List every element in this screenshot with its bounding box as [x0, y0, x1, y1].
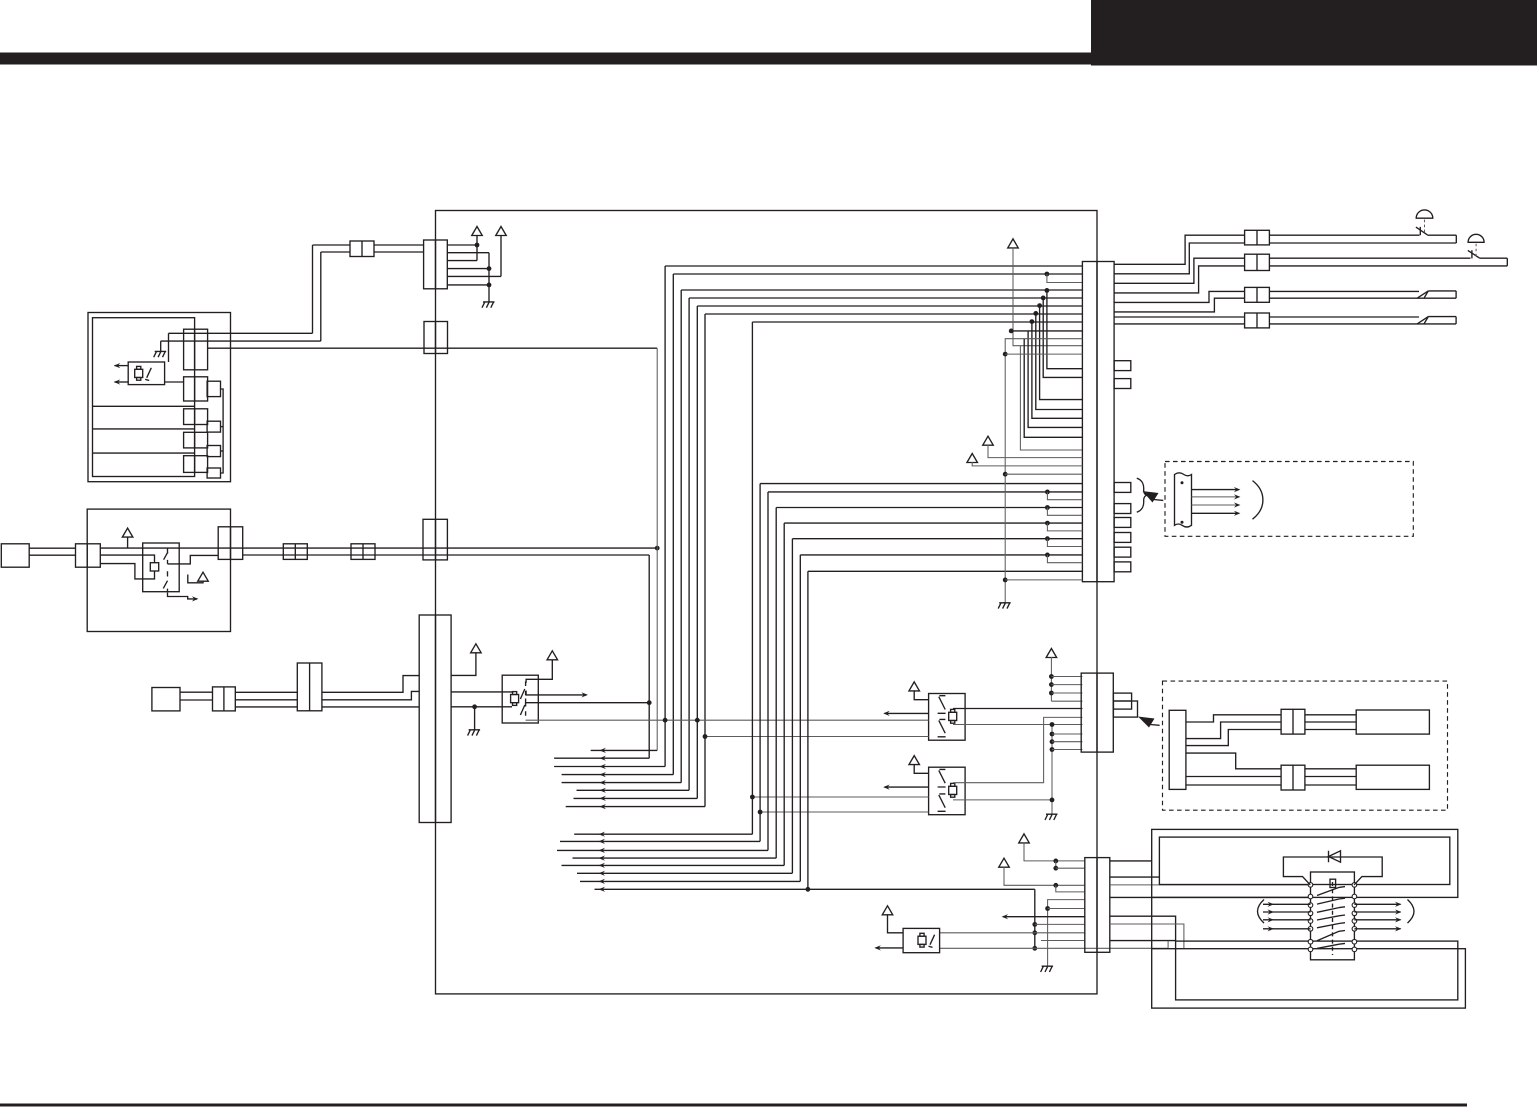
wire arrow out	[526, 691, 586, 695]
wire bundle lower	[784, 522, 1082, 524]
terminal tab	[1114, 562, 1131, 572]
wire bus out (arrow)	[562, 774, 674, 776]
wire	[1480, 257, 1508, 259]
switch fuse	[1330, 879, 1336, 887]
switch blade	[1317, 908, 1339, 913]
wire bundle1 vertical	[664, 266, 666, 767]
wire bus out (arrow)	[554, 757, 649, 759]
wire staircase	[1114, 266, 1245, 293]
wire bundle2 vertical	[807, 571, 809, 889]
wire arrow out	[115, 365, 129, 367]
wire arrow	[1192, 512, 1239, 514]
wire	[312, 245, 314, 333]
wire	[1114, 316, 1245, 318]
connector inline out3	[1245, 287, 1270, 302]
switch contact	[1416, 227, 1427, 235]
terminal tab	[207, 421, 220, 432]
wire bundle2 vertical	[783, 523, 785, 865]
wire staircase	[1114, 298, 1245, 312]
connector CN21 (edge)	[76, 544, 101, 567]
photocoupler PC42	[929, 767, 966, 815]
wire	[1051, 692, 1082, 694]
wire	[1305, 768, 1356, 770]
wire	[940, 947, 1169, 949]
wire pair link	[1030, 319, 1035, 324]
wire	[1305, 784, 1356, 786]
wire bundle lower	[792, 538, 1082, 540]
wire arrow	[1192, 489, 1239, 491]
wire gnd rail	[1051, 725, 1053, 815]
frame join	[1151, 897, 1153, 948]
wire	[1048, 900, 1085, 967]
wire bundle lower	[808, 570, 1083, 572]
photocoupler PC31	[502, 675, 538, 723]
power symbol	[909, 756, 920, 765]
power symbol	[999, 858, 1010, 867]
wire	[1052, 741, 1082, 743]
bracket	[1408, 900, 1415, 924]
wire	[1005, 579, 1082, 581]
connector CN1 (board edge, top)	[424, 240, 448, 289]
wire to power	[451, 652, 476, 675]
wire link	[1167, 941, 1169, 948]
connector CN13	[184, 409, 208, 425]
terminal tab	[1114, 533, 1131, 543]
connector inline	[351, 544, 375, 560]
switch pole pin	[1308, 939, 1313, 944]
wire bus out (arrow)	[562, 782, 682, 784]
bracket	[1253, 481, 1263, 520]
wire bus out (arrow)	[554, 766, 665, 768]
wire bundle lower	[800, 554, 1082, 556]
switch blade	[1317, 931, 1339, 940]
terminal tab	[207, 381, 220, 396]
wire arrow	[1192, 504, 1239, 506]
wire	[1005, 473, 1082, 475]
switch blade	[1317, 944, 1339, 948]
wire pair link	[1045, 553, 1050, 558]
ground	[1045, 814, 1058, 820]
wire arrow out	[168, 593, 198, 599]
wire staircase	[1114, 235, 1245, 264]
wire	[953, 799, 1052, 801]
wire	[1052, 749, 1082, 751]
wire gnd rail	[1005, 339, 1082, 603]
wire bundle top	[673, 273, 1082, 275]
ground	[1041, 966, 1054, 972]
connector CN11	[184, 329, 208, 370]
wire antenna feed 1	[1269, 234, 1419, 236]
wire	[1427, 234, 1456, 236]
jack square	[1, 544, 29, 567]
wire bundle top	[681, 289, 1082, 291]
terminal tab	[207, 446, 220, 457]
wire step	[1186, 753, 1281, 769]
wire bus out (arrow, through)	[595, 888, 1035, 890]
wire	[100, 547, 242, 549]
wire	[1269, 265, 1507, 267]
wire staircase	[1114, 243, 1245, 274]
wire pin3	[447, 260, 477, 262]
wire link	[1056, 885, 1085, 892]
connector CN22 (edge)	[218, 527, 243, 560]
wire arrow out	[885, 712, 929, 714]
wire bus out (arrow)	[557, 849, 768, 851]
wire	[1269, 297, 1456, 299]
node junction	[647, 700, 652, 705]
wire power stem	[1013, 247, 1082, 345]
power symbol B+	[496, 227, 507, 236]
wire	[1051, 676, 1082, 678]
connector CN12	[184, 377, 208, 401]
wire splice pair 2	[1269, 316, 1419, 318]
power symbol	[1019, 834, 1030, 843]
wire bundle2 vertical	[775, 508, 777, 859]
wire	[1305, 776, 1356, 778]
wire pin1	[447, 244, 477, 246]
contact 1	[164, 548, 168, 564]
wire arrow out	[1354, 911, 1400, 913]
wire arrow in	[1263, 903, 1311, 905]
connector CN top inline	[350, 241, 374, 257]
wire bus A	[207, 347, 657, 349]
wire step	[322, 676, 419, 693]
wire bus out (arrow)	[577, 789, 690, 791]
wire arrow	[1192, 496, 1239, 498]
wire chain	[221, 389, 224, 473]
wire bundle1 vertical	[696, 306, 698, 798]
connector inline out4	[1245, 313, 1270, 328]
wire pin4	[447, 268, 489, 270]
wire pair link	[1020, 346, 1082, 450]
connector inline tall	[297, 663, 322, 711]
wire	[1011, 330, 1082, 332]
wire	[29, 547, 75, 549]
connector CN7 (board edge, bottom)	[1085, 858, 1110, 953]
connector CN2 (board edge)	[424, 322, 448, 354]
wire	[1005, 353, 1082, 355]
module box	[1356, 710, 1429, 734]
antenna dome 1	[1416, 210, 1433, 218]
wire bundle1 vertical	[648, 555, 650, 758]
wire	[451, 691, 513, 693]
connector block	[1169, 710, 1186, 789]
diode D1 loop	[1283, 857, 1382, 885]
terminal tab	[1114, 483, 1131, 493]
wire step	[1186, 715, 1281, 722]
wire	[1114, 323, 1245, 325]
terminal tab	[1114, 518, 1131, 528]
ground	[468, 730, 481, 736]
wire pair link	[1028, 331, 1082, 428]
antenna dome 2	[1468, 234, 1484, 242]
connector inline	[1281, 765, 1305, 790]
wire	[1186, 784, 1281, 786]
wire bus out (arrow)	[574, 797, 698, 799]
wire pin2	[447, 252, 489, 254]
terminal tab	[1114, 547, 1131, 557]
wire bus out (arrow)	[573, 857, 777, 859]
switch link (dashed)	[1332, 882, 1334, 955]
wire	[1305, 714, 1356, 716]
wire bundle top	[665, 265, 1082, 267]
wire	[235, 691, 297, 693]
power symbol	[909, 682, 920, 691]
wire	[1110, 940, 1176, 942]
wire staircase	[1114, 258, 1245, 283]
wire pair link	[1041, 296, 1046, 301]
wire pair link	[1037, 303, 1042, 308]
wire to CN12	[165, 381, 184, 383]
wire bundle2 vertical	[767, 492, 769, 851]
switch pole pin	[1308, 911, 1313, 916]
wire bundle2 vertical	[759, 484, 761, 842]
wire pair link	[1045, 272, 1050, 277]
wire bus B	[243, 547, 658, 549]
wire in	[752, 796, 928, 798]
wire step	[1186, 722, 1281, 739]
wire pair link	[1045, 490, 1050, 495]
unit frame outer bottom	[1152, 949, 1466, 1008]
wire	[1052, 733, 1082, 735]
terminal tab	[1113, 693, 1131, 709]
connector CN6 (board edge)	[1081, 673, 1113, 752]
connector CN15	[184, 456, 208, 473]
connector CN14	[184, 432, 208, 448]
connector inline	[213, 687, 236, 711]
node junction	[472, 704, 477, 709]
partition line	[93, 405, 195, 407]
wire arrow out	[1003, 916, 1085, 918]
jack square	[152, 688, 180, 711]
wire arrow out	[1354, 903, 1400, 905]
ground	[998, 603, 1011, 609]
wire pin6	[447, 284, 489, 286]
wire bundle2 vertical	[791, 539, 793, 874]
wire bundle top	[752, 321, 1082, 323]
connector inline out2	[1245, 254, 1270, 270]
switch pole pin	[1308, 927, 1313, 932]
unit box inner	[93, 318, 195, 477]
callout arrow	[1143, 491, 1159, 503]
wire arrow in	[1263, 928, 1311, 930]
unit frame inner top	[1159, 837, 1449, 884]
wire bundle1 vertical	[672, 274, 674, 775]
wire pair link	[1045, 505, 1050, 510]
power symbol	[547, 651, 558, 660]
wire	[1110, 916, 1176, 941]
detail frame (dashed)	[1163, 681, 1448, 810]
wire bundle2 vertical	[799, 555, 801, 882]
wire in	[760, 811, 929, 813]
contact 2	[163, 571, 167, 593]
wire bus out (arrow)	[560, 840, 760, 842]
unit box	[87, 509, 230, 631]
wire arrow out	[876, 947, 903, 949]
wire staircase	[1114, 291, 1245, 302]
power symbol	[122, 528, 133, 537]
terminal tab	[1113, 701, 1137, 717]
wire bundle2 vertical	[751, 322, 753, 834]
wire	[1305, 729, 1356, 731]
wire arrow in	[1263, 919, 1311, 921]
wire gnd stem	[474, 707, 476, 730]
wire step	[322, 691, 419, 699]
wire bus out (arrow)	[577, 872, 792, 874]
wire	[1110, 924, 1184, 949]
footer rule	[0, 1104, 1467, 1107]
power symbol B+	[1008, 239, 1019, 248]
wire	[374, 244, 424, 246]
diode D1	[1329, 851, 1341, 862]
wire antenna feed 2	[1269, 257, 1470, 259]
power symbol B+	[472, 227, 483, 236]
connector CN3 (board edge)	[423, 519, 447, 560]
wire	[1269, 242, 1456, 244]
wire contact1 out	[168, 555, 219, 564]
wire	[180, 691, 213, 693]
wire out	[953, 724, 1082, 726]
terminal tab	[1114, 361, 1131, 371]
wire	[1305, 721, 1356, 723]
module box	[1356, 765, 1429, 789]
switch pole pin	[1308, 883, 1313, 888]
wire link	[953, 717, 1082, 782]
wire step	[1186, 730, 1281, 746]
wire	[1110, 860, 1152, 862]
wire bundle1 vertical	[656, 348, 658, 750]
cable symbol	[1175, 473, 1192, 527]
wire	[1110, 876, 1160, 878]
wire coil bottom	[100, 564, 154, 579]
wire	[940, 932, 1085, 934]
wire	[1056, 867, 1085, 869]
wire out	[953, 708, 1082, 710]
connector CN5 (board edge, main)	[1082, 262, 1114, 582]
node junction	[487, 266, 492, 271]
wire bus out (arrow)	[574, 833, 752, 835]
switch contact	[1468, 250, 1480, 258]
power symbol	[983, 436, 994, 445]
wire arrow out	[115, 381, 129, 383]
switch blade	[1317, 887, 1339, 895]
wire bus out (arrow)	[566, 806, 705, 808]
wire arrow out	[1354, 919, 1400, 921]
switch pole pin	[1308, 903, 1313, 908]
photocoupler PC51	[903, 928, 940, 952]
switch pole pin	[1308, 947, 1313, 952]
switch pole pin	[1308, 894, 1313, 899]
power symbol	[198, 572, 209, 581]
unit frame outer top	[1152, 829, 1458, 897]
wire	[451, 706, 512, 708]
ground	[482, 302, 495, 308]
wire pin5	[447, 275, 501, 277]
terminal tab	[1114, 379, 1131, 389]
photocoupler PC11	[128, 362, 164, 385]
ground	[154, 351, 167, 357]
connector inline out1	[1245, 230, 1270, 245]
wire bundle top	[705, 313, 1082, 315]
callout arrow	[1138, 717, 1155, 728]
wire bus C	[243, 554, 650, 556]
wire bundle lower	[760, 483, 1082, 485]
wire bundle top	[689, 297, 1082, 299]
power symbol	[471, 644, 482, 653]
node junction	[475, 243, 480, 248]
wire bundle1 vertical	[704, 314, 706, 807]
wire	[1269, 323, 1456, 325]
switch blade	[1317, 924, 1339, 928]
header rule bar	[0, 53, 1092, 65]
wire in	[526, 719, 929, 721]
wire arrow out	[885, 786, 929, 788]
wire	[1048, 908, 1085, 910]
wire	[526, 699, 650, 703]
unit box outer	[88, 313, 231, 482]
wire coil top	[100, 555, 154, 563]
terminal tab	[207, 468, 220, 478]
main board outline	[436, 211, 1098, 994]
power symbol	[1046, 649, 1057, 658]
wire pair link	[1024, 339, 1082, 438]
unit frame inner bottom	[1176, 941, 1458, 1000]
wire	[1110, 896, 1311, 898]
wire link	[1055, 861, 1057, 868]
node junction	[655, 546, 660, 551]
wire bundle lower	[776, 507, 1082, 509]
wire	[1051, 700, 1082, 702]
terminal tab	[1114, 504, 1131, 514]
wire splice pair 1	[1269, 290, 1419, 292]
wire bus out (arrow)	[591, 749, 658, 751]
power symbol	[967, 454, 978, 463]
wire pair link	[1045, 288, 1050, 293]
detail frame (dashed)	[1165, 462, 1413, 537]
wire	[169, 332, 313, 334]
photocoupler PC21	[143, 543, 180, 592]
wire	[161, 340, 321, 342]
wire pair link	[1045, 536, 1050, 541]
partition line	[93, 428, 195, 430]
power symbol	[882, 906, 893, 915]
wire	[1035, 923, 1085, 925]
connector inline	[1281, 709, 1305, 734]
wire bundle1 vertical	[680, 290, 682, 783]
connector CN4 (board edge, tall)	[419, 615, 451, 823]
wire bundle top	[697, 305, 1082, 307]
wire	[322, 706, 419, 708]
wire pair link	[1033, 311, 1038, 316]
wire pair link	[1045, 521, 1050, 526]
partition line	[93, 452, 195, 454]
wire bundle lower	[768, 491, 1082, 493]
photocoupler PC41	[929, 694, 966, 741]
wire link rail	[1034, 889, 1036, 948]
wire in	[705, 736, 929, 738]
header title block	[1091, 0, 1537, 66]
switch blade	[1317, 899, 1339, 904]
wire bus out (arrow)	[562, 864, 785, 866]
switch blade	[1317, 916, 1339, 920]
wire	[313, 244, 351, 246]
rotary switch body	[1311, 872, 1355, 960]
wire	[1041, 940, 1085, 942]
wire	[1051, 684, 1082, 686]
wire bundle1 vertical	[688, 298, 690, 790]
wire	[1110, 884, 1311, 886]
wire arrow in	[1263, 911, 1311, 913]
